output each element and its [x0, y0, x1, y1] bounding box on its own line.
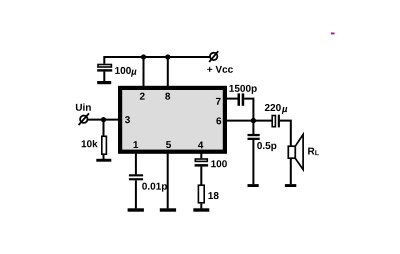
pin 7 label: [216, 98, 221, 105]
wire pin 8 drop: [167, 57, 169, 87]
resistor 18: [198, 185, 218, 208]
wire pin 7 stub: [226, 98, 238, 100]
node junction rail-pin8: [165, 54, 170, 59]
resistor 10k: [82, 136, 107, 159]
pin 1 label: [134, 141, 139, 148]
ground (100µ): [97, 81, 111, 84]
speaker RL: [288, 134, 319, 169]
ground (18): [193, 208, 209, 211]
wire supply rail: [104, 57, 210, 64]
pin 6 label: [216, 117, 221, 124]
pin 5 label: [166, 141, 171, 148]
pin 4 label: [198, 142, 203, 149]
capacitor 220µ: [265, 104, 287, 127]
ground (0.01p): [128, 208, 144, 211]
pin 8 label: [165, 93, 170, 100]
wire junction to 10k: [103, 120, 105, 136]
wire pin 6 stub: [226, 120, 272, 122]
ground (10k): [96, 159, 111, 162]
capacitor 100: [195, 159, 227, 185]
wire junction to 0.5p: [252, 121, 254, 134]
pin 2 label: [140, 93, 145, 100]
node pin6 junction: [251, 118, 256, 123]
wire pin 2 drop: [143, 57, 145, 87]
wire pin 5 to ground: [167, 154, 169, 209]
wire speaker to ground: [290, 158, 292, 184]
IC U1: [120, 88, 225, 152]
capacitor 0.5p: [248, 134, 277, 184]
wire 1500p to pin6 node: [244, 99, 253, 121]
node input junction: [101, 117, 106, 122]
wire pin 4 down: [200, 154, 202, 159]
capacitor 100µ: [97, 65, 136, 82]
ground (pin 5): [160, 208, 176, 211]
node junction rail-pin2: [141, 54, 146, 59]
terminal +Vcc: [207, 51, 233, 73]
capacitor 0.01p: [129, 174, 167, 208]
pin 3 label: [125, 116, 130, 123]
terminal Uin: [76, 103, 91, 125]
wire 220µ to speaker: [280, 121, 291, 147]
watermark mark: [331, 33, 335, 35]
wire input to pin 3: [88, 119, 120, 121]
wire pin 1 down: [135, 154, 137, 175]
capacitor 1500p: [229, 85, 256, 106]
ground (speaker): [285, 184, 296, 187]
ground (0.5p): [248, 184, 259, 187]
